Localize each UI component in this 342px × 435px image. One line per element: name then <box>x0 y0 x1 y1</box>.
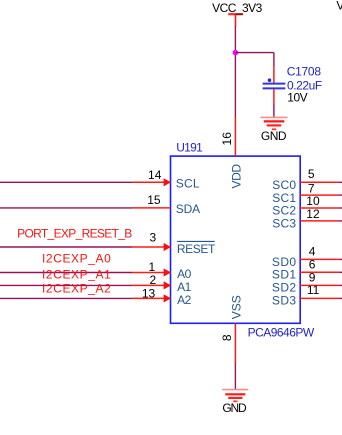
svg-text:1: 1 <box>149 260 156 274</box>
wire VCC vertical to VDD pin <box>234 26 236 117</box>
svg-text:I2CEXP_A2: I2CEXP_A2 <box>42 281 111 295</box>
svg-text:5: 5 <box>308 167 315 181</box>
svg-text:12: 12 <box>306 207 320 221</box>
pin 3 RESET <box>132 231 171 252</box>
svg-text:GND: GND <box>222 401 247 415</box>
svg-text:2: 2 <box>150 273 157 287</box>
wire SC2 tail <box>339 207 342 209</box>
svg-text:SDA: SDA <box>176 202 200 216</box>
ground symbol GND (VSS) <box>222 390 248 402</box>
svg-text:A2: A2 <box>177 293 192 307</box>
svg-text:A1: A1 <box>177 280 192 294</box>
svg-text:PCA9646PW: PCA9646PW <box>248 326 315 340</box>
wire I2CEXP_A2 net <box>0 297 132 299</box>
svg-text:15: 15 <box>147 193 161 207</box>
wire SD1 tail <box>339 271 342 273</box>
svg-text:SCL: SCL <box>176 176 200 190</box>
wire SD3 tail <box>339 297 342 299</box>
pin 4 SD0 <box>300 244 339 259</box>
svg-text:SD2: SD2 <box>272 280 297 294</box>
wire SC1 tail <box>339 194 342 196</box>
svg-text:VCC: VCC <box>336 0 342 12</box>
svg-text:SD3: SD3 <box>272 293 297 307</box>
wire I2CEXP_A1 net <box>0 284 132 286</box>
pin 12 SC3 <box>300 207 339 221</box>
svg-text:VDD: VDD <box>230 164 244 189</box>
pin name RESET with overline <box>177 241 216 256</box>
wire VSS to ground <box>234 364 236 390</box>
svg-text:SD1: SD1 <box>272 267 297 281</box>
wire capacitor to ground <box>273 105 275 117</box>
wire SD2 tail <box>339 284 342 286</box>
svg-text:6: 6 <box>309 257 316 271</box>
wire SCL net <box>0 181 132 183</box>
svg-text:4: 4 <box>309 244 316 258</box>
pin 8 VSS <box>220 323 236 364</box>
pin 7 SC1 <box>300 182 339 196</box>
svg-text:SC3: SC3 <box>272 216 296 230</box>
wire branch to capacitor <box>235 53 274 67</box>
svg-text:13: 13 <box>142 286 156 300</box>
pin 6 SD1 <box>300 257 339 272</box>
svg-text:10V: 10V <box>287 91 307 105</box>
pin 9 SD2 <box>300 270 339 285</box>
svg-text:VSS: VSS <box>230 295 244 319</box>
svg-text:PORT_EXP_RESET_B: PORT_EXP_RESET_B <box>17 227 132 241</box>
svg-text:I2CEXP_A0: I2CEXP_A0 <box>42 251 111 265</box>
pin 14 SCL <box>132 168 171 186</box>
pin 13 A2 <box>132 286 171 302</box>
wire SC0 tail <box>339 181 342 183</box>
junction dot <box>233 50 239 56</box>
svg-text:11: 11 <box>307 283 320 297</box>
wire PORT_EXP_RESET_B net <box>0 246 132 248</box>
pin 16 VDD <box>220 117 235 156</box>
pin 2 A1 <box>132 273 171 289</box>
power symbol VCC_3V3 <box>228 14 243 26</box>
svg-text:RESET: RESET <box>177 242 216 256</box>
wire SD0 tail <box>339 258 342 260</box>
wire SDA net <box>0 207 132 209</box>
ground symbol GND (capacitor) <box>261 117 288 129</box>
svg-text:14: 14 <box>148 168 162 182</box>
capacitor C1708 <box>263 66 286 106</box>
op-amp U1 body: IC U191 PCA9646PW <box>171 156 301 323</box>
pin 15 SDA <box>132 193 171 208</box>
pin 11 SD3 <box>300 283 339 298</box>
pin 5 SC0 <box>300 167 339 182</box>
svg-text:16: 16 <box>220 132 234 146</box>
svg-text:3: 3 <box>150 231 157 245</box>
wire SC3 tail <box>339 220 342 222</box>
svg-text:GND: GND <box>261 129 287 143</box>
wire I2CEXP_A0 net <box>0 272 132 274</box>
svg-text:I2CEXP_A1: I2CEXP_A1 <box>42 268 111 282</box>
svg-text:C1708: C1708 <box>287 64 322 78</box>
pin 1 A0 <box>132 260 171 277</box>
svg-text:10: 10 <box>306 194 320 208</box>
svg-text:8: 8 <box>220 334 234 341</box>
svg-text:U191: U191 <box>176 140 203 154</box>
svg-text:VCC_3V3: VCC_3V3 <box>212 1 263 15</box>
pin 10 SC2 <box>300 194 339 208</box>
